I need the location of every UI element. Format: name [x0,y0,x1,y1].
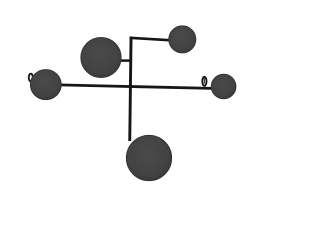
disc right [211,74,236,99]
disc left [30,70,61,100]
hook loop on rod near right disc [202,77,206,86]
wire: long horizontal rod [59,85,212,89]
hook loop on left disc [29,74,33,82]
disc bottom large [126,135,171,180]
wire: top diagonal rod [130,37,172,42]
wire: vertical rod [128,37,132,142]
wire: stub from big disc to vertical rod [117,59,131,62]
disc top-left large [81,37,121,77]
pin inside right hook loop [203,78,205,83]
disc top-right [169,26,196,53]
